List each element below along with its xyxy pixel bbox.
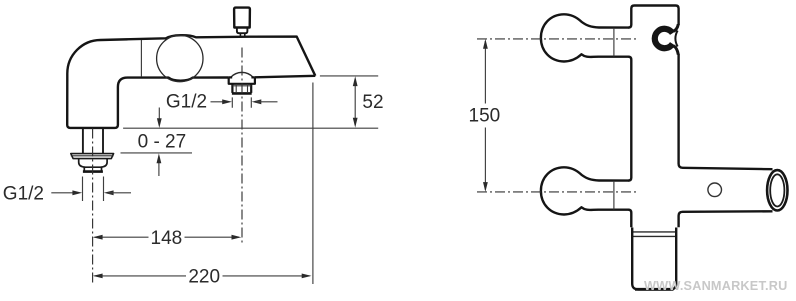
spout nut cylinder <box>84 167 101 171</box>
handle centerlines <box>477 38 637 40</box>
spout nut cup <box>79 159 107 167</box>
svg-text:0 - 27: 0 - 27 <box>138 131 187 152</box>
bottom handle joint <box>613 181 615 210</box>
svg-text:220: 220 <box>188 266 220 287</box>
shower outlet upper block <box>229 77 255 83</box>
G1/2 top arrows <box>211 101 229 103</box>
bottom handle <box>541 167 630 214</box>
body left edge <box>628 9 631 228</box>
top handle joint <box>613 28 615 57</box>
shower outlet lower block <box>232 84 251 93</box>
150 dimension <box>484 41 486 190</box>
diverter knob <box>234 8 250 28</box>
svg-text:150: 150 <box>469 106 501 127</box>
spout flange plate <box>71 154 114 159</box>
deck line <box>123 127 378 129</box>
flange level line <box>121 152 193 154</box>
control knob circle <box>157 35 203 81</box>
hook ring <box>655 29 673 48</box>
svg-text:WWW.SANMARKET.RU: WWW.SANMARKET.RU <box>644 279 787 293</box>
arm hole <box>708 183 722 197</box>
right extension vertical <box>312 83 314 285</box>
svg-text:G1/2: G1/2 <box>3 183 44 204</box>
spout end inner ellipse <box>770 174 784 206</box>
top handle <box>541 14 630 61</box>
spout end outer ellipse <box>767 170 787 210</box>
body bottom groove <box>632 232 676 237</box>
svg-text:148: 148 <box>151 228 183 249</box>
0-27 down arrow <box>158 108 160 126</box>
0-27 up arrow <box>158 157 160 177</box>
outlet centerline <box>241 48 243 244</box>
svg-text:G1/2: G1/2 <box>166 92 207 113</box>
faucet body outline <box>67 35 315 128</box>
shower outlet dome <box>231 72 253 77</box>
sleeve <box>632 228 676 290</box>
joint line <box>140 40 142 77</box>
G1/2 bottom arrows <box>51 192 79 194</box>
spout centerline <box>92 129 94 285</box>
body top edge <box>631 6 678 26</box>
spout tube <box>83 129 103 153</box>
148 dimension <box>95 236 240 238</box>
52 dimension <box>320 75 378 77</box>
svg-text:52: 52 <box>362 92 383 113</box>
body right edge and arm <box>679 54 773 169</box>
220 dimension <box>95 275 310 277</box>
